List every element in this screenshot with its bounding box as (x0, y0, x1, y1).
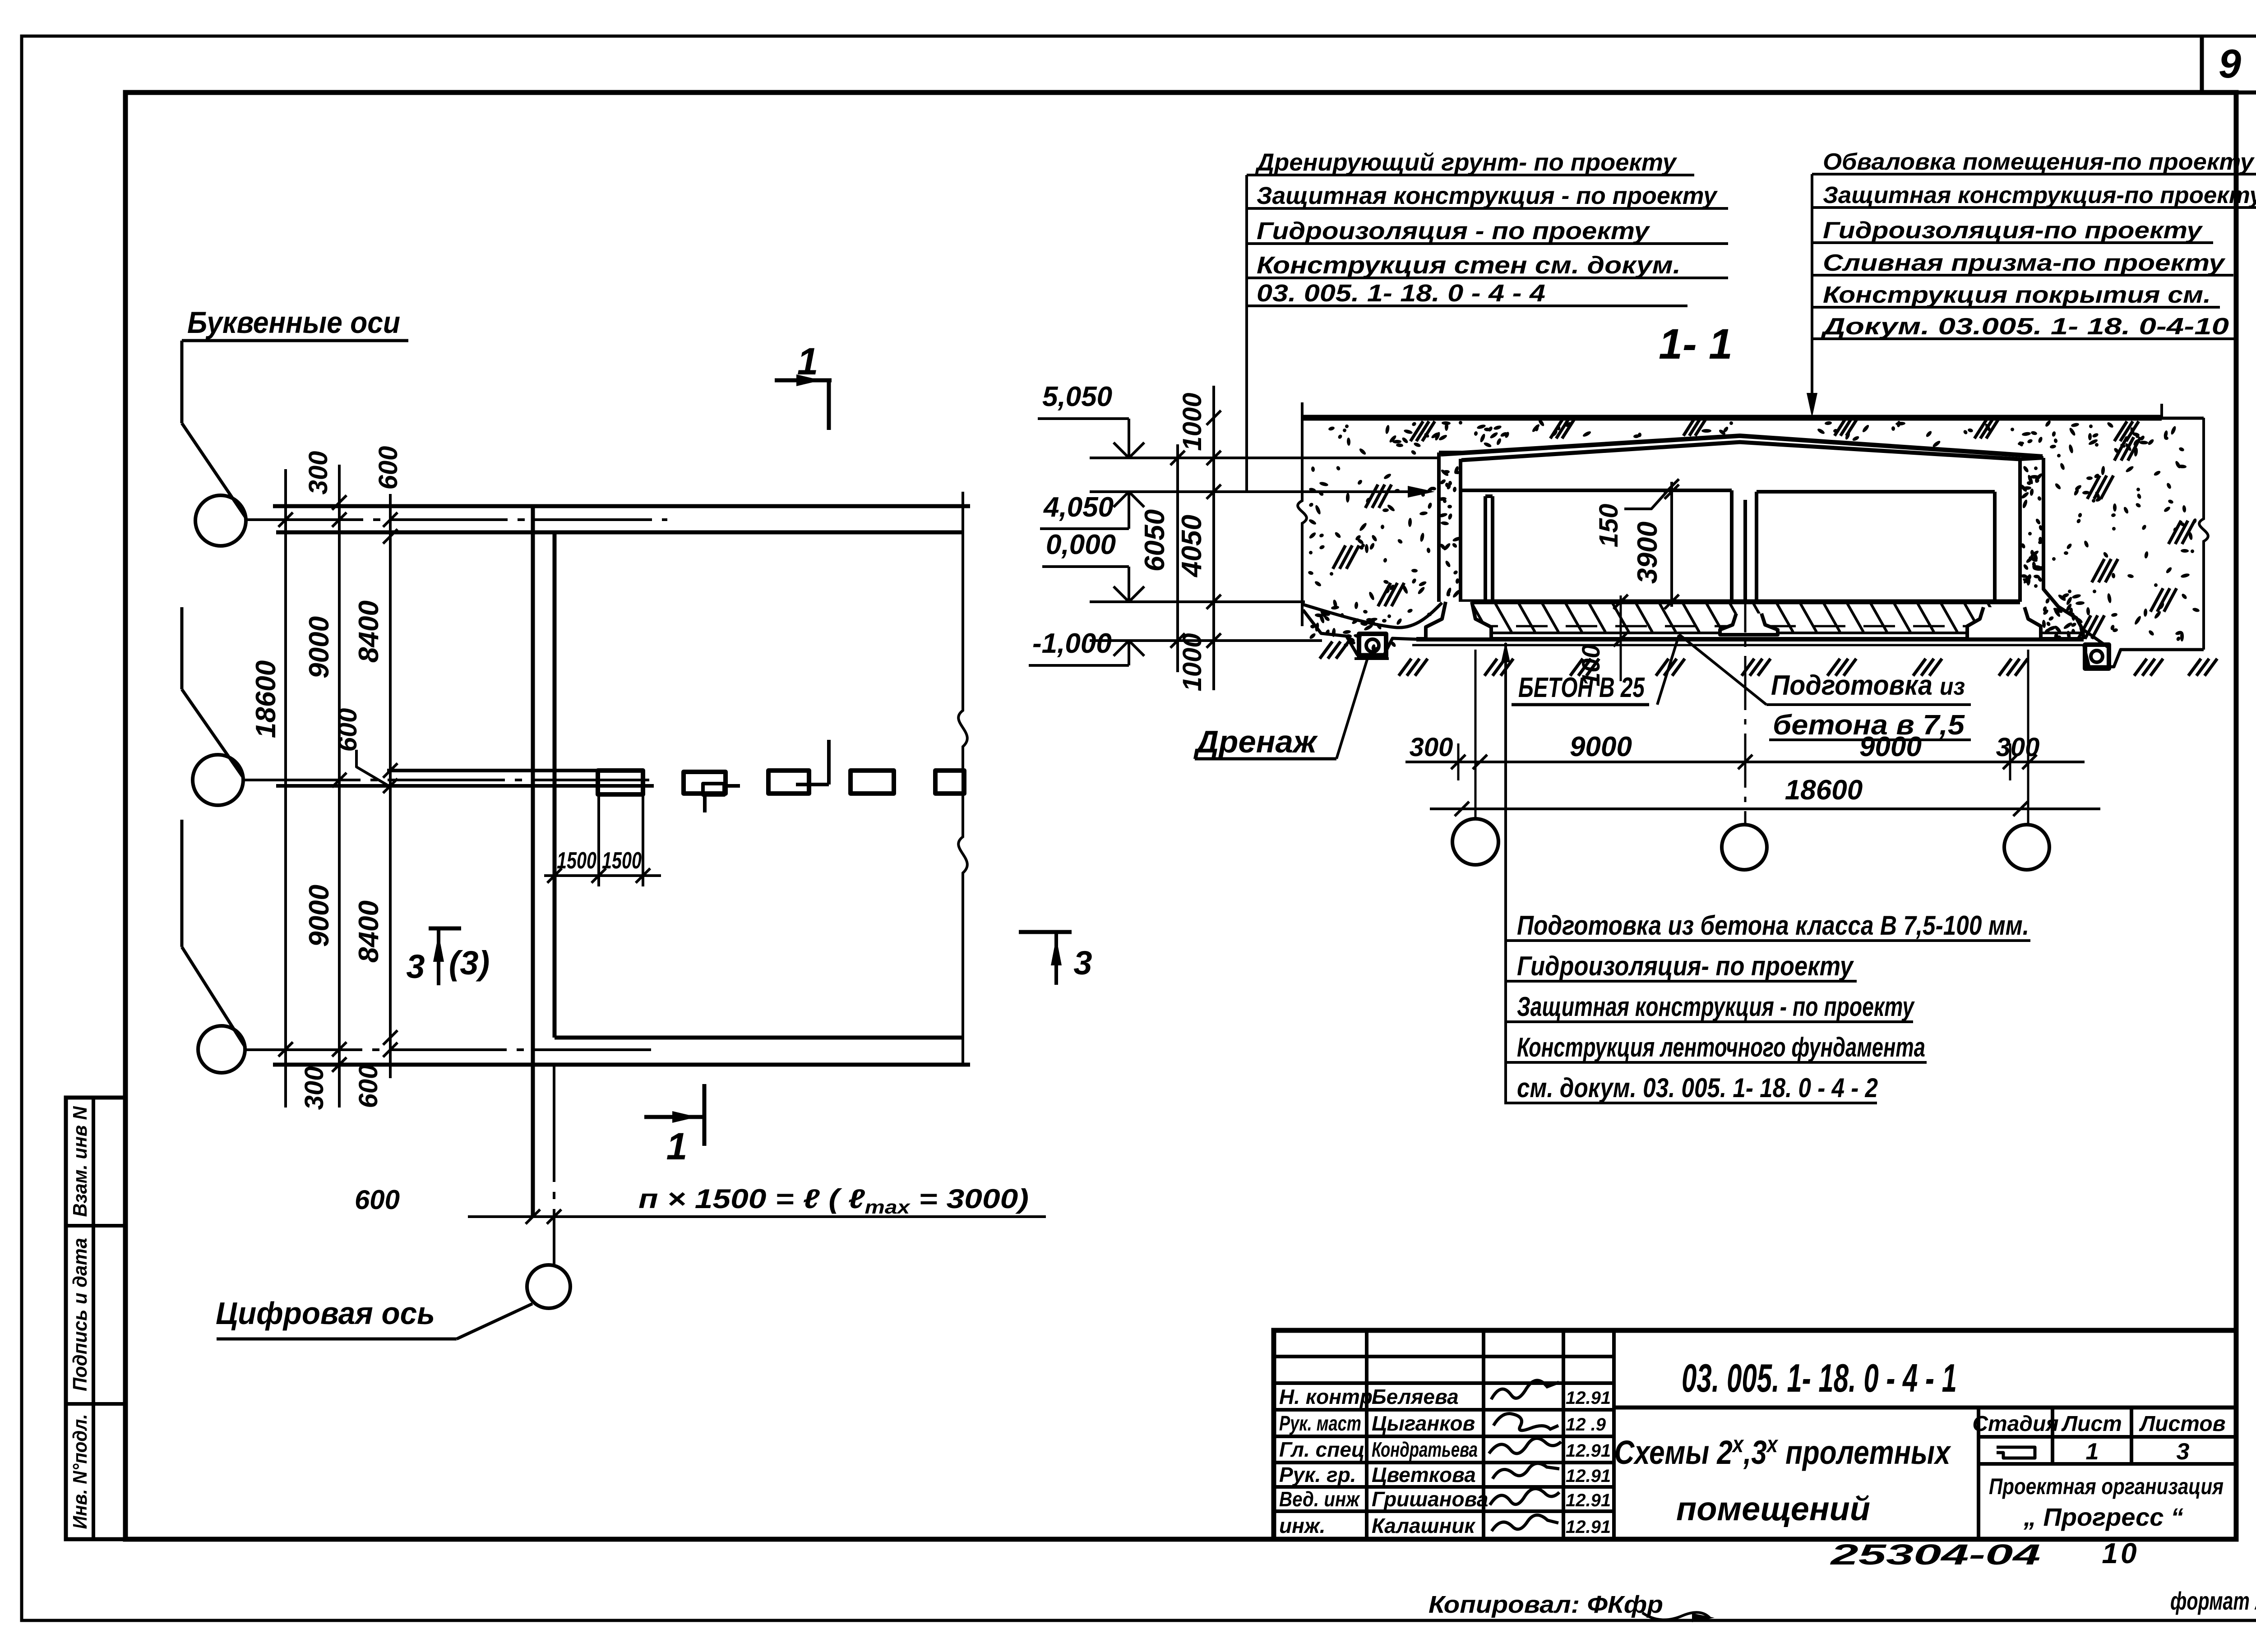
leader Beton V25 (1504, 643, 1507, 1104)
drainage left box (1359, 634, 1386, 656)
svg-text:25304-04: 25304-04 (1830, 1538, 2041, 1571)
svg-text:600: 600 (374, 446, 403, 490)
svg-text:6050: 6050 (1139, 509, 1170, 572)
right wall inner face (2018, 459, 2022, 602)
svg-text:300: 300 (300, 1066, 329, 1110)
dim 100 (1620, 595, 1622, 681)
svg-text:Конструкция ленточного фунда: Конструкция ленточного фундамента (1517, 1032, 1925, 1062)
svg-text:Обваловка помещения-по проекту: Обваловка помещения-по проекту (1823, 149, 2255, 175)
svg-text:12.91: 12.91 (1566, 1441, 1611, 1461)
svg-text:Защитная конструкция-по проект: Защитная конструкция-по проекту (1823, 182, 2256, 208)
svg-text:Подготовка из бетона класса В: Подготовка из бетона класса В 7,5-100 мм… (1517, 910, 2029, 941)
svg-text:Подпись и дата: Подпись и дата (69, 1238, 91, 1391)
title block outer (1274, 1330, 2236, 1539)
svg-text:1- 1: 1- 1 (1659, 320, 1733, 368)
svg-text:формат А3: формат А3 (2170, 1587, 2256, 1615)
floor hatch band (1471, 602, 1488, 632)
svg-text:п × 1500 = ℓ ( ℓmax = 3000): п × 1500 = ℓ ( ℓmax = 3000) (638, 1184, 1029, 1218)
earth stipple right block (2083, 540, 2090, 548)
base thin line (1412, 644, 2085, 646)
svg-text:Конструкция покрытия см.: Конструкция покрытия см. (1823, 282, 2211, 308)
left earth cut edge with break (1298, 402, 1307, 626)
svg-text:12.91: 12.91 (1566, 1388, 1611, 1408)
floor top line 0.000 (1461, 600, 2020, 605)
svg-text:Калашник: Калашник (1372, 1514, 1476, 1537)
section dim chain 1000/4050/1000 (1212, 386, 1215, 690)
svg-text:Проектная организация: Проектная организация (1989, 1474, 2224, 1499)
foundation left (1426, 602, 1491, 639)
title block left table (1365, 1330, 1368, 1539)
left wall axis below plan (dash-dot) (553, 1065, 555, 1265)
svg-text:9000: 9000 (304, 616, 335, 678)
svg-text:Защитная конструкция - по пр: Защитная конструкция - по проекту (1517, 992, 1915, 1022)
left wall outer face (1437, 452, 1441, 602)
svg-text:9000: 9000 (1570, 731, 1632, 762)
svg-text:1: 1 (666, 1125, 688, 1167)
svg-text:помещений: помещений (1676, 1490, 1870, 1527)
svg-text:5,050: 5,050 (1042, 381, 1112, 412)
svg-text:12.91: 12.91 (1566, 1466, 1611, 1486)
dim 3900 (1670, 482, 1673, 607)
left ground slope profile (1303, 603, 1442, 628)
svg-text:12.91: 12.91 (1566, 1490, 1611, 1510)
stipple left slope band (1339, 613, 1345, 618)
svg-text:-1,000: -1,000 (1032, 628, 1112, 659)
svg-text:1000: 1000 (1178, 633, 1207, 691)
section mark 1 bottom (703, 1084, 707, 1146)
svg-text:600: 600 (333, 708, 362, 752)
left wall inner band line (1459, 459, 1462, 602)
level line 5.050 (1090, 457, 1439, 459)
room2 right face (1993, 492, 1997, 602)
svg-text:18600: 18600 (250, 660, 282, 738)
bottom 600 dim and formula line (468, 1215, 1046, 1218)
plan axis line C (dash-dot) (245, 1048, 659, 1051)
section axis circle 2 (1722, 825, 1767, 870)
svg-text:Сливная призма-по проекту: Сливная призма-по проекту (1823, 250, 2226, 276)
svg-text:БЕТОН В 25: БЕТОН В 25 (1518, 672, 1645, 703)
svg-text:Листов: Листов (2139, 1412, 2225, 1436)
svg-text:Конструкция стен см. доку: Конструкция стен см. докум. (1257, 252, 1681, 279)
svg-text:Цифровая ось: Цифровая ось (216, 1296, 435, 1331)
svg-text:Инв. N°подл.: Инв. N°подл. (69, 1414, 91, 1529)
svg-text:Взам. инв N: Взам. инв N (69, 1106, 91, 1217)
svg-text:„ Прогресс “: „ Прогресс “ (2023, 1503, 2183, 1531)
svg-text:9000: 9000 (304, 885, 335, 947)
svg-text:Копировал: ФКфр: Копировал: ФКфр (1428, 1591, 1663, 1618)
top wall inner face (276, 531, 963, 535)
floor band dash line (1466, 625, 2017, 628)
svg-text:см. докум. 03. 005. 1- 18.: см. докум. 03. 005. 1- 18. 0 - 4 - 2 (1517, 1073, 1878, 1103)
plan dim line 9000 chain (338, 465, 341, 1107)
extension lines to circles (1457, 743, 1460, 780)
svg-text:Гидроизоляция- по проекту: Гидроизоляция- по проекту (1517, 951, 1854, 981)
axis bracket polyline (180, 341, 184, 423)
section axis circle 1 (1452, 819, 1498, 865)
room1 column (1484, 496, 1487, 602)
stage flag symbol (1997, 1447, 2035, 1458)
left margin stamp table (66, 1098, 125, 1539)
svg-text:18600: 18600 (1785, 775, 1863, 806)
svg-text:12 .9: 12 .9 (1566, 1415, 1606, 1435)
svg-text:4050: 4050 (1176, 515, 1207, 578)
structure left parapet (1439, 451, 1461, 454)
svg-text:Гидроизоляция - по проекту: Гидроизоляция - по проекту (1257, 217, 1650, 245)
svg-text:Рук. гр.: Рук. гр. (1279, 1463, 1356, 1486)
svg-text:3: 3 (1073, 944, 1092, 982)
plan axis line A (dash-dot) (246, 518, 667, 521)
svg-text:4,050: 4,050 (1043, 492, 1114, 523)
middle wall upper face (387, 769, 598, 772)
stipple left wall band (1443, 470, 1448, 475)
right earth cut edge with break (2199, 418, 2208, 650)
svg-text:Дренаж: Дренаж (1193, 724, 1318, 759)
opening rect 5 at break (935, 771, 964, 794)
svg-text:Защитная конструкция - по прое: Защитная конструкция - по проекту (1257, 182, 1718, 209)
stadiya table (1977, 1407, 1980, 1539)
svg-text:(3): (3) (449, 944, 490, 982)
svg-text:0,000: 0,000 (1046, 529, 1116, 560)
svg-text:Дренирующий грунт- по проекту: Дренирующий грунт- по проекту (1255, 149, 1678, 176)
foundation middle (1720, 614, 1778, 635)
svg-text:300: 300 (1410, 733, 1453, 762)
svg-text:8400: 8400 (353, 900, 384, 963)
dim 1500 1500 (597, 794, 600, 886)
svg-text:Цыганков: Цыганков (1372, 1412, 1475, 1435)
svg-text:3900: 3900 (1632, 521, 1663, 584)
svg-text:150: 150 (1594, 504, 1623, 548)
mound top line (1303, 415, 2162, 421)
left wall inner face / axis (553, 532, 557, 1038)
svg-text:Кондратьева: Кондратьева (1372, 1438, 1478, 1461)
svg-text:инж.: инж. (1279, 1514, 1326, 1537)
svg-text:12.91: 12.91 (1566, 1517, 1611, 1537)
svg-text:10: 10 (2102, 1537, 2139, 1569)
plan break line right (958, 492, 967, 1065)
earth stipple left block (1427, 612, 1432, 617)
left annot leader (1245, 175, 1248, 491)
svg-text:Подготовка из: Подготовка из (1771, 670, 1965, 701)
podgotovka bottom line (1416, 637, 2084, 641)
svg-text:03. 005. 1- 18. 0 - 4 - 4: 03. 005. 1- 18. 0 - 4 - 4 (1257, 280, 1545, 307)
svg-text:600: 600 (355, 1185, 400, 1215)
signatures (1491, 1380, 1559, 1399)
svg-text:3: 3 (406, 948, 425, 985)
section dim line 6050 (1176, 444, 1179, 672)
plan dim line 600/8400 chain (389, 494, 392, 1078)
roof lower line (1461, 442, 2020, 460)
level line 0.000 (1090, 600, 1305, 603)
foundation right (1967, 607, 2041, 639)
section bottom dim line 300/9000/9000/300 (1405, 761, 2085, 763)
bottom wall inner face (555, 1036, 962, 1040)
page number box with 9 (2200, 36, 2204, 92)
view mark 3 right (1019, 930, 1072, 934)
middle wall lower face (276, 784, 654, 788)
earth stipple top strip (2088, 433, 2092, 440)
opening rect 1 (598, 771, 643, 794)
svg-text:300: 300 (1996, 733, 2040, 762)
svg-text:1500: 1500 (557, 848, 596, 874)
opening rect 2 with notch (684, 772, 726, 794)
svg-text:9: 9 (2219, 42, 2241, 87)
svg-text:1: 1 (2086, 1439, 2099, 1465)
room1 ceiling (1461, 489, 1732, 492)
drainage right box (2085, 645, 2109, 669)
plan dim line 18600 (284, 469, 287, 1107)
room2 ceiling (1757, 490, 1995, 494)
section axis circle 3 (2004, 825, 2049, 870)
left wall outer face (531, 506, 535, 1217)
svg-text:Цветкова: Цветкова (1372, 1463, 1476, 1486)
svg-text:1000: 1000 (1178, 392, 1207, 451)
view mark 3 (3) left (429, 927, 461, 931)
middle wall faces (1730, 490, 1734, 602)
section mark 1 top (775, 378, 832, 383)
svg-text:1500: 1500 (602, 848, 642, 874)
svg-text:Вед. инж: Вед. инж (1279, 1487, 1360, 1511)
stipple right wall band (2029, 549, 2039, 558)
svg-text:Буквенные оси: Буквенные оси (187, 305, 400, 340)
svg-text:Н. контр.: Н. контр. (1279, 1385, 1378, 1408)
top wall outer face (273, 504, 970, 508)
svg-text:9000: 9000 (1859, 731, 1922, 762)
opening rect 3 with section jog (768, 771, 809, 794)
right annot leader with arrow (1811, 174, 1813, 408)
svg-text:3: 3 (2177, 1439, 2190, 1465)
svg-text:Гидроизоляция-по проекту: Гидроизоляция-по проекту (1823, 217, 2204, 244)
right wall outer face with boot (2043, 458, 2084, 639)
svg-text:Стадия: Стадия (1972, 1412, 2058, 1436)
svg-text:Рук. маст: Рук. маст (1279, 1412, 1361, 1435)
svg-text:1: 1 (797, 340, 818, 383)
roof upper line (1441, 436, 2043, 457)
axis circle C (198, 1026, 245, 1073)
level line 4.050 / leader arrow (1090, 490, 1428, 493)
opening rect 4 (851, 771, 894, 794)
svg-text:600: 600 (354, 1065, 383, 1108)
svg-text:Беляева: Беляева (1372, 1385, 1459, 1408)
axis circle 1 (bottom) (527, 1265, 570, 1308)
plan axis line B (dash-dot) (243, 779, 659, 781)
right inner extension line (2160, 404, 2163, 418)
svg-text:300: 300 (304, 451, 333, 495)
bottom wall outer face (273, 1063, 970, 1067)
right ground slope profile (2081, 628, 2109, 648)
podgotovka top line (1426, 632, 2084, 634)
axis circle A (195, 495, 246, 546)
drainage left base (1355, 657, 1389, 660)
svg-text:Лист: Лист (2061, 1412, 2122, 1436)
ground marks under base (1399, 659, 1411, 676)
svg-text:8400: 8400 (353, 600, 384, 663)
svg-text:03. 005. 1- 18. 0 - 4 - 1: 03. 005. 1- 18. 0 - 4 - 1 (1682, 1356, 1957, 1400)
axis circle B (193, 755, 243, 805)
svg-text:Схемы 2х,3х пролетных: Схемы 2х,3х пролетных (1614, 1431, 1951, 1471)
level line -1.000 (1090, 639, 1322, 642)
svg-text:Гришанова: Гришанова (1372, 1487, 1488, 1511)
svg-text:Гл. спец: Гл. спец (1279, 1438, 1365, 1461)
svg-text:Докум. 03.005. 1- 18. 0-4-10: Докум. 03.005. 1- 18. 0-4-10 (1821, 314, 2229, 340)
section dim line 18600 (1430, 808, 2100, 810)
